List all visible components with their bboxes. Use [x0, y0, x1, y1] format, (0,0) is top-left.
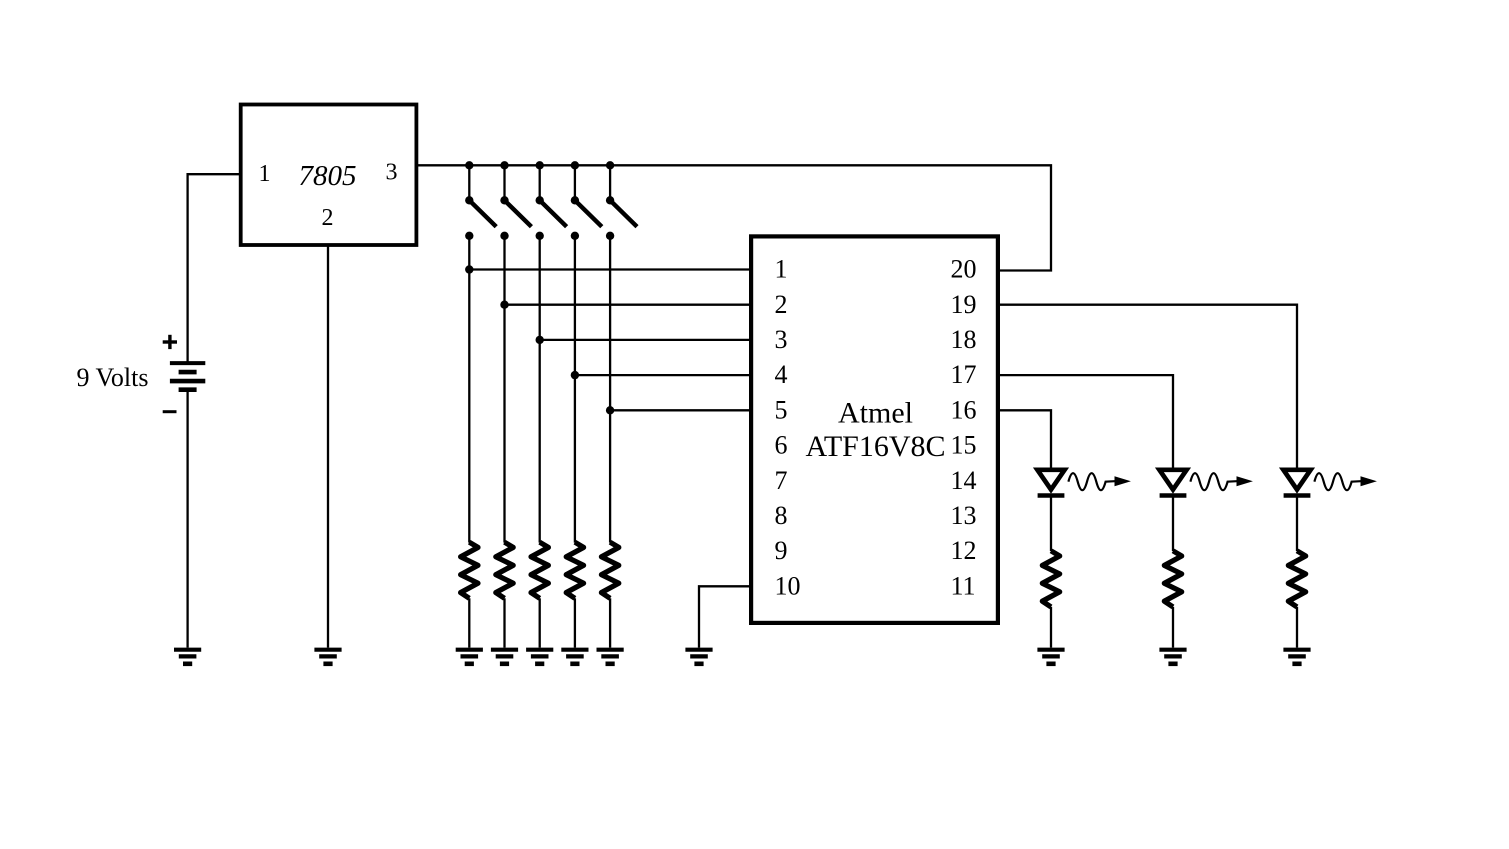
wire switch S2 bottom to resistor R2 — [503, 236, 505, 543]
svg-text:7: 7 — [775, 466, 788, 495]
node rail junction switch S3 — [536, 161, 544, 169]
switch S2 top terminal — [500, 196, 508, 204]
wire ATF16V8C pin 19 to LED D3 — [998, 305, 1297, 468]
svg-text:2: 2 — [322, 205, 334, 231]
wire switch S4 to ATF16V8C pin 4 — [575, 374, 751, 376]
node junction switch S2 to chip pin 2 — [500, 301, 508, 309]
ground U2 pin 10 — [685, 650, 712, 664]
wire rail to switch S3 top terminal — [539, 165, 541, 200]
svg-text:5: 5 — [775, 395, 788, 424]
switch S4 bottom terminal — [571, 232, 579, 240]
resistor R3 pulldown — [531, 542, 548, 598]
LED D1 — [1037, 470, 1064, 496]
IC U2 Atmel ATF16V8C — [751, 236, 998, 623]
svg-text:10: 10 — [775, 571, 801, 600]
ground LED D3 — [1283, 650, 1310, 664]
wire switch S1 to ATF16V8C pin 1 — [469, 268, 751, 270]
resistor R7 LED series — [1164, 551, 1181, 607]
svg-text:2: 2 — [775, 290, 788, 319]
wire resistor R6 to ground — [1050, 607, 1052, 648]
ground LED D2 — [1159, 650, 1186, 664]
svg-text:16: 16 — [951, 395, 977, 424]
wire LED D2 cathode to resistor R7 — [1172, 496, 1174, 552]
wire switch S4 bottom to resistor R4 — [574, 236, 576, 543]
wire resistor R2 to ground — [503, 598, 505, 647]
wire switch S3 bottom to resistor R3 — [539, 236, 541, 543]
ground battery — [174, 650, 201, 664]
ground LED D1 — [1037, 650, 1064, 664]
svg-text:6: 6 — [775, 431, 788, 460]
svg-text:4: 4 — [775, 360, 788, 389]
svg-text:Atmel: Atmel — [838, 396, 913, 429]
svg-text:14: 14 — [951, 466, 977, 495]
ground R1 — [456, 650, 483, 664]
resistor R5 pulldown — [601, 542, 618, 598]
wire battery + to 7805 pin 1 — [188, 174, 241, 363]
wire switch S2 to ATF16V8C pin 2 — [505, 304, 752, 306]
switch S5 top terminal — [606, 196, 614, 204]
battery plus sign — [163, 335, 177, 349]
ground R5 — [597, 650, 624, 664]
node rail junction switch S2 — [500, 161, 508, 169]
resistor R4 pulldown — [566, 542, 583, 598]
switch S3 bottom terminal — [536, 232, 544, 240]
svg-text:19: 19 — [951, 290, 977, 319]
wire switch S1 bottom to resistor R1 — [468, 236, 470, 543]
svg-text:3: 3 — [775, 325, 788, 354]
svg-text:7805: 7805 — [299, 160, 357, 192]
svg-text:15: 15 — [951, 431, 977, 460]
resistor R8 LED series — [1288, 551, 1305, 607]
node rail junction switch S1 — [465, 161, 473, 169]
battery minus sign — [163, 410, 177, 413]
ground R2 — [491, 650, 518, 664]
LED D2 — [1159, 470, 1186, 496]
node junction switch S5 to chip pin 5 — [606, 406, 614, 414]
switch S2 bottom terminal — [500, 232, 508, 240]
wire LED D1 cathode to resistor R6 — [1050, 496, 1052, 552]
wire resistor R4 to ground — [574, 598, 576, 647]
wire battery - to ground — [186, 390, 188, 648]
switch S5 bottom terminal — [606, 232, 614, 240]
resistor R6 LED series — [1042, 551, 1059, 607]
wire resistor R5 to ground — [609, 598, 611, 647]
LED D1 light emission arrow — [1068, 473, 1131, 490]
svg-text:11: 11 — [951, 571, 976, 600]
wire switch S3 to ATF16V8C pin 3 — [540, 339, 751, 341]
wire rail to switch S5 top terminal — [609, 165, 611, 200]
svg-text:12: 12 — [951, 536, 977, 565]
svg-text:9 Volts: 9 Volts — [76, 363, 148, 392]
switch S3 blade (open) — [540, 200, 567, 226]
wire ATF16V8C pin 10 to ground — [699, 586, 751, 647]
node rail junction switch S5 — [606, 161, 614, 169]
switch S4 top terminal — [571, 196, 579, 204]
switch S1 bottom terminal — [465, 232, 473, 240]
svg-text:3: 3 — [386, 160, 398, 186]
wire switch S5 bottom to resistor R5 — [609, 236, 611, 543]
switch S5 blade (open) — [610, 200, 637, 226]
switch S4 blade (open) — [575, 200, 602, 226]
wire resistor R1 to ground — [468, 598, 470, 647]
wire 7805 pin 2 to ground — [327, 246, 329, 648]
LED D3 light emission arrow — [1314, 473, 1377, 490]
switch S1 blade (open) — [469, 200, 496, 226]
switch S3 top terminal — [536, 196, 544, 204]
wire ATF16V8C pin 17 to LED D2 — [998, 375, 1173, 468]
ground R3 — [526, 650, 553, 664]
wire switch S5 to ATF16V8C pin 5 — [610, 409, 751, 411]
ground R4 — [561, 650, 588, 664]
wire resistor R7 to ground — [1172, 607, 1174, 648]
switch S1 top terminal — [465, 196, 473, 204]
svg-text:9: 9 — [775, 536, 788, 565]
wire resistor R8 to ground — [1296, 607, 1298, 648]
ground 7805 pin 2 — [314, 650, 341, 664]
svg-text:ATF16V8C: ATF16V8C — [805, 430, 945, 463]
svg-text:17: 17 — [951, 360, 977, 389]
node junction switch S1 to chip pin 1 — [465, 265, 473, 273]
node junction switch S3 to chip pin 3 — [536, 336, 544, 344]
svg-text:20: 20 — [951, 255, 977, 284]
svg-text:1: 1 — [259, 161, 271, 187]
node rail junction switch S4 — [571, 161, 579, 169]
svg-text:13: 13 — [951, 501, 977, 530]
wire 5V rail: 7805 pin 3 to ATF16V8C pin 20 — [417, 165, 1052, 270]
voltage regulator U1 7805 — [241, 105, 417, 246]
battery BT1 9 Volts — [170, 363, 205, 390]
wire rail to switch S2 top terminal — [503, 165, 505, 200]
LED D3 — [1283, 470, 1310, 496]
svg-text:1: 1 — [775, 255, 788, 284]
svg-text:8: 8 — [775, 501, 788, 530]
wire ATF16V8C pin 16 to LED D1 — [998, 410, 1051, 468]
LED D2 light emission arrow — [1190, 473, 1253, 490]
node junction switch S4 to chip pin 4 — [571, 371, 579, 379]
wire rail to switch S1 top terminal — [468, 165, 470, 200]
switch S2 blade (open) — [505, 200, 532, 226]
wire resistor R3 to ground — [539, 598, 541, 647]
svg-text:18: 18 — [951, 325, 977, 354]
wire LED D3 cathode to resistor R8 — [1296, 496, 1298, 552]
wire rail to switch S4 top terminal — [574, 165, 576, 200]
resistor R1 pulldown — [461, 542, 478, 598]
resistor R2 pulldown — [496, 542, 513, 598]
